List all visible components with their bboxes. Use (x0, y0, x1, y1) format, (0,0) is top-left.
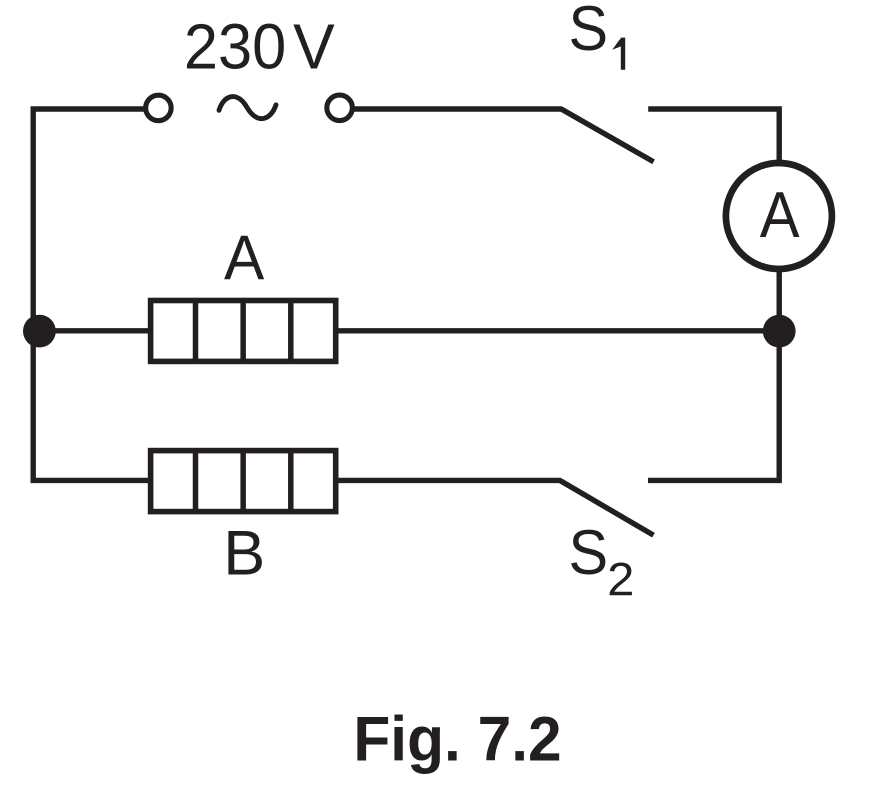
AC source left terminal circle (146, 95, 172, 121)
svg-text:S: S (569, 518, 609, 588)
svg-text:S: S (569, 0, 609, 64)
node: right junction dot (763, 315, 796, 348)
svg-text:B: B (223, 518, 265, 588)
wire: resistor A to right node (338, 328, 779, 333)
wire: S1 right contact to right vertical, down to ammeter (648, 109, 779, 165)
svg-text:A: A (224, 223, 265, 293)
resistor A (heater element) (151, 301, 336, 362)
wire: resistor B to switch S2 pivot (338, 478, 561, 483)
wire: left side (top-left corner, left vertical, bottom-left corner) (33, 109, 148, 480)
AC sine symbol (219, 97, 276, 119)
svg-text:V: V (293, 11, 335, 83)
wire: AC source right terminal to switch S1 pivot (352, 106, 562, 111)
wire: ammeter bottom through right node to bottom-right corner (648, 267, 779, 480)
wire: middle branch, left node to resistor A (39, 328, 148, 333)
switch S1 blade (561, 109, 654, 162)
ammeter circle (726, 163, 832, 269)
switch S2 blade (560, 481, 654, 536)
node: left junction dot (23, 315, 56, 348)
AC source right terminal circle (327, 95, 353, 121)
svg-text:230: 230 (184, 11, 286, 83)
svg-text:A: A (760, 179, 800, 251)
svg-text:Fig. 7.2: Fig. 7.2 (353, 704, 561, 774)
resistor B (heater element) (151, 451, 336, 512)
label S1 subscript 1 (drawn, helvetica style) (612, 38, 625, 70)
